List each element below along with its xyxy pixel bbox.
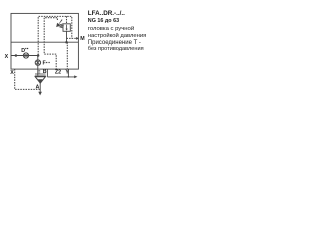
svg-text:B: B [43, 69, 47, 75]
A port interface ticks [38, 70, 40, 73]
A arrowhead bottom [38, 92, 42, 96]
title line 2 [88, 19, 119, 24]
svg-text:X: X [5, 54, 9, 60]
A port bar upper [35, 73, 46, 75]
title line 1 [88, 11, 125, 17]
A port seat apex [38, 79, 43, 83]
svg-text:Y: Y [65, 69, 69, 75]
svg-text:Z2: Z2 [55, 70, 61, 76]
partition line [11, 41, 78, 43]
description line 2 [88, 34, 147, 40]
orifice F [35, 60, 40, 65]
pilot dashed Z2 path [44, 18, 57, 69]
valve spring [60, 24, 63, 28]
M arrowhead [76, 37, 79, 40]
pilot dashed Y line in frame [66, 42, 68, 69]
junction dot valve drain [65, 41, 68, 44]
wire X port line [11, 55, 38, 57]
valve arrow inside square [66, 25, 68, 31]
relief valve U1 square [63, 24, 70, 32]
svg-text:D: D [21, 48, 25, 54]
pilot dashed X to valve top [38, 16, 72, 55]
description line 4 [88, 47, 144, 53]
orifice D [23, 53, 28, 58]
wire A line down through orifice F [37, 56, 39, 76]
D asterisks [25, 48, 26, 49]
svg-text:A: A [36, 85, 40, 91]
pilot dashed M gauge line [67, 37, 77, 39]
junction dot at A branch [37, 54, 40, 57]
wire drain line to tank arrow [47, 76, 75, 78]
drain arrowhead [74, 75, 77, 78]
F asterisks [46, 62, 47, 63]
svg-text:X: X [10, 70, 14, 76]
wire A continuation below triangle [39, 83, 41, 92]
wire B stub below frame [46, 69, 48, 77]
svg-text:F: F [43, 61, 47, 67]
pilot dashed X port below frame [15, 69, 41, 89]
pilot dashed drop to valve [66, 16, 68, 23]
junction dot on X line [15, 54, 18, 57]
description line 3 [88, 40, 141, 46]
wire valve drain down [66, 31, 68, 42]
wire Y stub below frame [67, 69, 69, 77]
A port bar lower [35, 75, 46, 77]
description line 1 [88, 27, 134, 33]
junction dot drain line [68, 76, 70, 78]
A port triangle [35, 77, 45, 83]
adjustment arrow [56, 19, 62, 27]
hydraulic schematic of LFA..DR control cover [0, 0, 150, 130]
svg-text:M: M [80, 36, 85, 42]
frame (cover outline) [11, 13, 78, 69]
